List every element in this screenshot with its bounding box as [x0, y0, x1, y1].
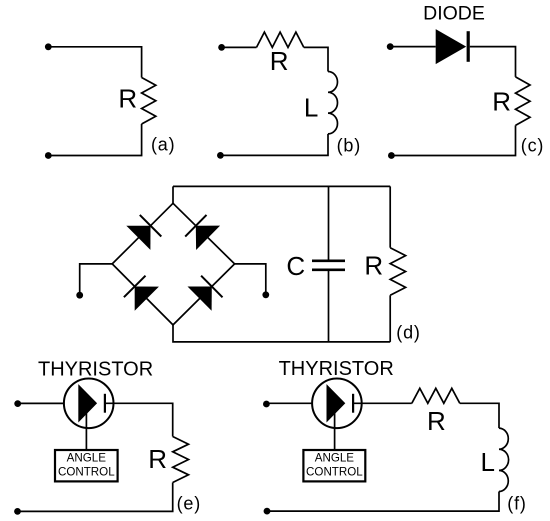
wire d bridge sides [112, 203, 234, 325]
svg-text:(d): (d) [396, 323, 420, 343]
bridge diode D2 upper-right [196, 226, 220, 250]
wire f left [266, 402, 311, 404]
gate wire (f) [334, 409, 336, 450]
svg-text:ANGLE: ANGLE [315, 452, 355, 465]
wire c bottom [391, 125, 515, 155]
terminal dot D2 [262, 291, 269, 298]
terminal dot F1 [263, 401, 270, 408]
wire e left [18, 402, 64, 404]
terminal dot F2 [264, 508, 271, 515]
svg-text:(a): (a) [151, 135, 175, 155]
resistor R (a) [142, 78, 156, 125]
inductor L (b) [328, 72, 338, 134]
terminal dot E2 [14, 508, 21, 515]
svg-text:R: R [427, 406, 446, 436]
svg-text:(f): (f) [507, 493, 526, 513]
angle control box (f) [303, 450, 365, 481]
svg-text:R: R [148, 444, 167, 474]
wire e right [105, 403, 173, 436]
svg-text:ANGLE: ANGLE [67, 452, 107, 465]
wire b top-left [222, 46, 257, 48]
svg-text:R: R [364, 251, 383, 281]
wire e bottom [18, 483, 173, 512]
svg-text:(c): (c) [521, 135, 544, 155]
wire c top-left [390, 46, 436, 48]
wire d bottom stub [173, 325, 390, 342]
wire d right terminal [235, 264, 266, 295]
svg-text:CONTROL: CONTROL [58, 466, 115, 479]
resistor R (c) [516, 77, 531, 126]
wire f bottom [267, 492, 499, 512]
svg-text:R: R [270, 46, 289, 76]
terminal dot B2 [217, 152, 224, 159]
resistor R (e) [173, 437, 189, 483]
wire d left terminal [80, 264, 113, 295]
wire f right1 [353, 402, 412, 404]
svg-text:DIODE: DIODE [423, 3, 485, 25]
terminal dot B1 [218, 44, 225, 51]
svg-text:CONTROL: CONTROL [306, 466, 363, 479]
wire f right2 [460, 403, 499, 428]
svg-text:THYRISTOR: THYRISTOR [279, 358, 394, 380]
gate wire (e) [85, 409, 87, 450]
svg-text:L: L [480, 447, 494, 477]
thyristor Q (f) [312, 379, 362, 429]
wire a bottom [48, 124, 141, 156]
wire b top-right [304, 47, 328, 71]
svg-text:(e): (e) [177, 493, 201, 513]
diode D (c) cathode bar [467, 31, 470, 62]
terminal dot C2 [388, 152, 395, 159]
bridge diode D1 upper-left [126, 226, 150, 250]
wire d cap branch top [328, 186, 330, 259]
svg-text:THYRISTOR: THYRISTOR [38, 359, 153, 381]
angle control box (e) [55, 450, 118, 481]
wire d cap branch bottom [328, 271, 330, 342]
svg-text:R: R [492, 87, 511, 117]
terminal dot C1 [387, 43, 394, 50]
svg-text:(b): (b) [337, 136, 361, 156]
svg-text:L: L [304, 93, 318, 123]
diode D (c) triangle [436, 29, 467, 64]
wire a top [48, 47, 141, 78]
svg-text:C: C [286, 251, 305, 281]
wire d R branch top [389, 186, 391, 247]
svg-text:R: R [118, 84, 137, 114]
wire b bottom [220, 134, 328, 156]
thyristor Q (e) [64, 379, 114, 429]
capacitor C plates [312, 259, 345, 262]
terminal dot A1 [45, 43, 52, 50]
terminal dot A2 [45, 152, 52, 159]
bridge diode D3 lower-left [135, 287, 159, 311]
resistor R (d) [390, 248, 405, 296]
terminal dot D1 [76, 292, 83, 299]
terminal dot E1 [14, 400, 21, 407]
wire d R branch bottom [389, 295, 391, 342]
resistor R (b) [257, 32, 304, 47]
resistor R (f) [412, 388, 460, 403]
wire c top-right [470, 47, 516, 77]
wire d top rail [173, 185, 390, 187]
bridge diode D4 lower-right [188, 287, 212, 311]
wire d top stub [172, 186, 174, 203]
inductor L (f) [499, 428, 509, 491]
